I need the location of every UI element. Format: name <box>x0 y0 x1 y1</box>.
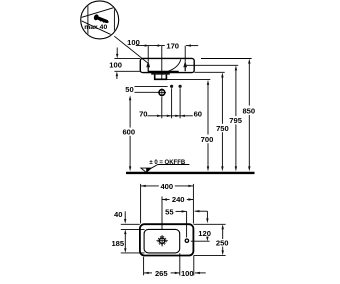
tap hole reference line <box>191 240 210 242</box>
top dimension line y=45.6 <box>136 45 198 47</box>
arrowheads on top dimension <box>142 44 191 46</box>
400 extension verticals <box>140 184 142 224</box>
extension vertical at 148.2 <box>147 46 149 62</box>
svg-text:55: 55 <box>165 207 174 216</box>
leader line from balloon to fixing screw <box>114 36 148 63</box>
right fixing arrow <box>183 61 187 71</box>
795 dimension vertical <box>235 70 237 167</box>
svg-text:265: 265 <box>155 269 168 278</box>
plan left reference lines <box>121 223 140 225</box>
40 dimension plan <box>124 211 126 219</box>
700 dimension vertical <box>207 85 209 168</box>
svg-text:120: 120 <box>198 229 211 238</box>
left 100 dimension outside arrows <box>114 58 140 60</box>
50 reference lines <box>135 85 168 87</box>
700 reference line <box>166 79 210 81</box>
55 vertical to tap line <box>186 211 188 237</box>
750 dimension vertical <box>221 77 223 167</box>
400 dimension line <box>141 185 159 187</box>
70/60 dimension line <box>148 115 193 117</box>
795 reference line <box>187 64 239 66</box>
svg-text:100: 100 <box>181 269 194 278</box>
svg-text:850: 850 <box>242 106 255 115</box>
drain symbol plan <box>156 235 167 246</box>
185 dimension plan <box>124 234 126 249</box>
55 dimension line <box>176 210 187 212</box>
svg-text:185: 185 <box>111 239 124 248</box>
floor level marker triangle <box>141 168 151 172</box>
basin inner curve <box>168 59 181 71</box>
svg-text:60: 60 <box>194 109 202 118</box>
250 dimension <box>222 229 224 251</box>
supply dot left <box>170 85 173 88</box>
extension vertical at 184.6 <box>184 46 186 62</box>
extension vertical at 117 with down arrow <box>116 48 118 55</box>
inner bowl outline <box>144 229 180 253</box>
extension vertical at 161.8 down to trap <box>161 46 163 79</box>
supply dot right <box>179 85 182 88</box>
svg-text:70: 70 <box>139 109 147 118</box>
240 dimension line <box>162 199 170 201</box>
svg-text:600: 600 <box>122 128 135 137</box>
svg-text:± 0 = OKFFB: ± 0 = OKFFB <box>149 160 185 166</box>
svg-text:700: 700 <box>201 135 214 144</box>
left fixing arrow <box>146 61 150 71</box>
verticals from drain and supplies <box>162 88 180 118</box>
washbasin front elevation outline <box>140 58 194 72</box>
screw icon max40 <box>93 14 110 25</box>
lines inside detail circle <box>78 0 120 40</box>
svg-text:400: 400 <box>160 182 173 191</box>
trap box <box>155 75 167 80</box>
850 dimension vertical <box>248 63 250 167</box>
265/100 bottom dimension line <box>144 272 152 274</box>
detail circle balloon <box>81 1 119 39</box>
120 top hook <box>195 210 208 212</box>
750 reference line <box>195 71 225 73</box>
250 reference lines <box>194 223 226 225</box>
washbasin plan outline <box>140 224 194 255</box>
tap hole plan <box>185 239 188 242</box>
svg-text:max 40: max 40 <box>84 24 107 31</box>
svg-text:40: 40 <box>114 210 122 219</box>
level label underline <box>158 164 190 166</box>
120 lower arrow <box>206 236 208 239</box>
svg-text:750: 750 <box>216 124 229 133</box>
svg-text:50: 50 <box>125 85 133 94</box>
bottom dimension extension verticals <box>144 253 194 275</box>
850 reference line <box>201 58 252 60</box>
240 extension vertical at drain line <box>161 197 163 230</box>
svg-text:170: 170 <box>166 42 179 51</box>
svg-text:240: 240 <box>172 195 185 204</box>
drain symbol elevation <box>158 88 166 96</box>
floor line <box>126 172 255 174</box>
svg-text:795: 795 <box>229 116 242 125</box>
600 dimension line <box>129 99 131 169</box>
svg-text:100: 100 <box>127 38 140 47</box>
svg-text:250: 250 <box>216 239 229 248</box>
basin bowl bottom bar <box>148 71 179 73</box>
svg-text:100: 100 <box>109 60 122 69</box>
trap flange <box>151 73 170 75</box>
